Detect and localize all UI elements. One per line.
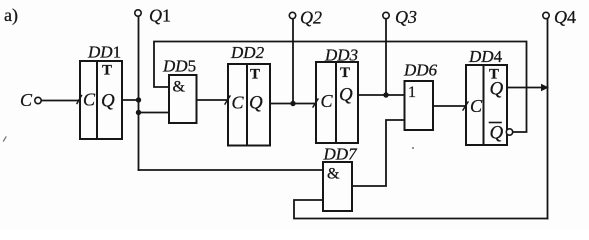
wire DD5 out to DD2.C xyxy=(197,99,229,101)
node J2 xyxy=(136,110,141,115)
inversion bubble DD4 Qbar xyxy=(506,129,512,135)
svg-text:&: & xyxy=(327,166,340,183)
svg-text:T: T xyxy=(340,65,350,81)
svg-text:C: C xyxy=(321,91,334,111)
svg-text:DD3: DD3 xyxy=(324,46,358,65)
wire feedback from DD4 Qbar to DD5 input 1 xyxy=(154,42,527,133)
svg-text:DD6: DD6 xyxy=(403,61,438,80)
wire DD1.Q to node J1 xyxy=(122,99,139,101)
dynamic input slash DD2 xyxy=(225,96,230,104)
AND gate DD7 xyxy=(323,145,359,212)
input terminal C xyxy=(35,97,41,103)
svg-text:Q2: Q2 xyxy=(300,8,322,28)
svg-text:C: C xyxy=(83,90,96,110)
svg-text:Q: Q xyxy=(490,79,504,100)
svg-text:DD7: DD7 xyxy=(323,145,359,164)
svg-text:Q3: Q3 xyxy=(395,7,417,27)
scan artifact tick xyxy=(4,137,7,141)
svg-text:Q: Q xyxy=(101,91,115,112)
output Q1 xyxy=(135,10,141,16)
svg-text:DD2: DD2 xyxy=(230,43,265,62)
wire bottom feedback Q4 to DD7 input 2 xyxy=(294,200,548,219)
dynamic input slash DD4 xyxy=(463,102,468,110)
svg-text:&: & xyxy=(173,79,186,96)
node J3 xyxy=(290,101,295,106)
svg-text:Q4: Q4 xyxy=(554,7,576,27)
dynamic input slash DD3 xyxy=(313,99,318,107)
svg-text:T: T xyxy=(250,67,260,83)
svg-text:C: C xyxy=(20,90,33,110)
wire DD6 out to DD4.C xyxy=(433,105,466,107)
output Q3 xyxy=(383,12,389,18)
wire DD7 out to DD6 input 2 xyxy=(352,120,405,186)
svg-text:Q: Q xyxy=(249,93,263,114)
svg-text:DD4: DD4 xyxy=(468,47,503,66)
svg-text:C: C xyxy=(470,96,483,116)
flip-flop DD1 xyxy=(80,43,122,140)
flip-flop DD2 xyxy=(228,43,270,146)
output Q2 xyxy=(289,12,295,18)
scan artifact dot xyxy=(412,147,414,149)
node J1 xyxy=(136,97,141,102)
svg-text:a): a) xyxy=(4,5,18,26)
svg-text:Q: Q xyxy=(339,85,353,106)
wire DD3.Q to DD6 input 1 xyxy=(358,94,405,96)
OR gate DD6 xyxy=(403,61,438,131)
wire J2 to DD5 input 2 xyxy=(139,112,170,114)
svg-text:C: C xyxy=(232,93,245,113)
wire J2 down to DD7 input 1 xyxy=(139,169,324,171)
svg-text:1: 1 xyxy=(408,84,416,101)
node J4 xyxy=(383,92,388,97)
wire C to DD1 xyxy=(42,100,81,102)
svg-text:Q: Q xyxy=(490,123,504,144)
wire DD4.Q to node J5 xyxy=(507,87,548,89)
wire DD2.Q to DD3.C xyxy=(270,103,316,105)
svg-text:DD5: DD5 xyxy=(162,57,196,76)
dynamic input slash DD1 xyxy=(77,96,82,104)
svg-text:T: T xyxy=(102,63,112,79)
node J5 arrow xyxy=(541,84,549,91)
svg-text:DD1: DD1 xyxy=(87,43,121,62)
flip-flop DD3 xyxy=(316,46,358,144)
output Q4 xyxy=(543,12,549,18)
flip-flop DD4 xyxy=(466,47,507,145)
AND gate DD5 xyxy=(162,57,197,124)
svg-text:Q1: Q1 xyxy=(149,6,171,26)
